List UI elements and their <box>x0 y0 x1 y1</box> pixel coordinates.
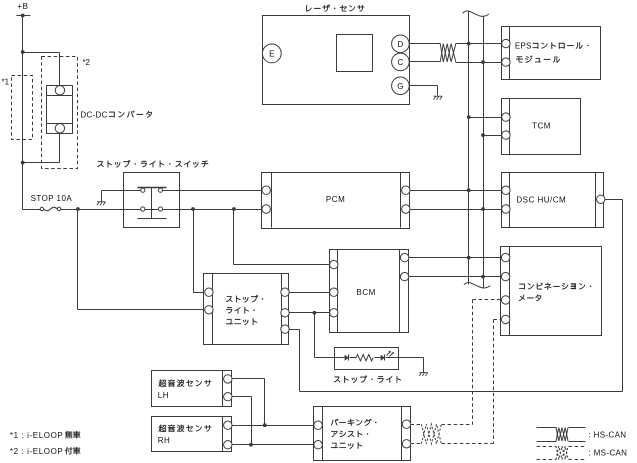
svg-text:*1 : i-ELOOP: *1 : i-ELOOP <box>10 431 63 440</box>
svg-text:LH: LH <box>158 391 169 400</box>
svg-text:PCM: PCM <box>326 195 345 204</box>
svg-text:BCM: BCM <box>357 288 376 297</box>
svg-text:STOP 10A: STOP 10A <box>31 194 73 203</box>
svg-text:*1: *1 <box>2 78 10 87</box>
svg-text:*2 : i-ELOOP: *2 : i-ELOOP <box>10 447 63 456</box>
svg-text:: HS-CAN: : HS-CAN <box>589 430 627 439</box>
svg-text:G: G <box>397 82 403 91</box>
svg-text:: MS-CAN: : MS-CAN <box>589 449 628 458</box>
svg-text:DSC HU/CM: DSC HU/CM <box>516 195 566 204</box>
svg-text:*2: *2 <box>82 58 90 67</box>
svg-text:D: D <box>398 40 404 49</box>
svg-text:TCM: TCM <box>532 122 551 131</box>
svg-text:E: E <box>269 49 274 58</box>
svg-text:+B: +B <box>17 2 28 11</box>
svg-text:RH: RH <box>158 436 170 445</box>
svg-text:EPS: EPS <box>515 42 532 51</box>
svg-text:C: C <box>398 58 404 67</box>
svg-text:DC-DC: DC-DC <box>80 110 107 119</box>
